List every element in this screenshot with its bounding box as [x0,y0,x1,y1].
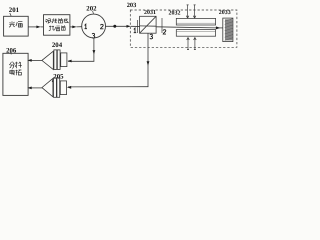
wire detector204 to analysis box [29,59,42,61]
mirror hatched back [225,19,232,40]
svg-text:2033: 2033 [219,10,231,16]
svg-text:205: 205 [53,73,64,80]
junction dot [113,25,116,28]
text line2 扰偏器 (pseudo-glyphs) [49,25,66,30]
circulator 202 [82,14,106,38]
light source box 201 [4,16,29,36]
wire source to filter [28,26,37,28]
beam line through cube to etalon [131,25,177,28]
beam line inside cube (redraw over fill) [140,25,157,27]
port tick left of cube [137,20,139,33]
wire cube port3 down to detector 205 [147,33,149,86]
plate 1 [54,50,57,70]
text 分析 (pseudo-glyphs) [9,62,22,69]
svg-text:2032: 2032 [169,11,181,17]
svg-text:203: 203 [127,2,137,9]
plate 1 [54,78,57,98]
arrowhead into detector 205 [67,86,71,89]
tuning arrow bottom-left (up) [187,38,190,50]
wire circulator port3 down [93,38,95,61]
wire filter to circulator [70,26,73,28]
arrowhead into circulator [72,26,76,29]
text 光源 (pseudo-glyphs) [9,21,22,27]
arrowhead into filter [36,26,40,29]
arrowhead into box 203 [127,25,131,28]
svg-text:202: 202 [86,5,97,12]
label 205 tick [51,79,54,82]
svg-text:201: 201 [9,7,20,14]
arrowhead into box 206 (upper) [27,59,31,62]
label 206 tick [9,52,12,54]
filter/scrambler box [44,15,70,36]
dashed box 203 [130,10,237,47]
detector 205 [42,78,67,98]
wire corner to detector 204 [68,60,94,62]
arrowhead into detector 204 [67,60,71,63]
cube port 3 label [150,34,153,39]
beam line between etalon plates [176,26,216,29]
etalon plate top [176,18,215,25]
etalon plate top inner face line [176,22,215,24]
label 201 tick [10,13,11,16]
wire circulator to interferometer box [106,25,128,27]
text 电路 (pseudo-glyphs) [10,70,22,76]
svg-text:204: 204 [52,42,63,49]
mirror 2033 [223,18,233,41]
label 202 tick [92,11,95,14]
can [61,53,67,67]
port 2 label [101,24,104,28]
can [60,81,66,95]
arrowhead toward mirror [216,26,220,29]
port 1 label [85,24,88,29]
svg-text:2031: 2031 [144,10,156,16]
etalon plate bottom inner face line [176,30,215,32]
text line1 滤波器或 (pseudo-glyphs) [45,18,68,23]
wire detector205 to analysis box [29,87,42,89]
actuation wire etalon to mirror [216,27,223,29]
tuning arrow bottom-right (up) [194,38,197,50]
wire corner to detector 205 [68,86,148,88]
tuning arrow top-left (down) [186,5,189,18]
arrowhead down on port3 wire [93,50,96,54]
arrowhead down on cube port3 wire [147,61,150,65]
analysis circuit box 206 [3,53,28,95]
cone [42,78,53,96]
etalon plate bottom [176,30,215,37]
tuning arrow top-right (down) [193,5,196,18]
port 3 label [92,33,95,38]
beam splitter cube 2031 [140,16,157,33]
arrowhead into box 206 (lower) [27,87,31,90]
cube diagonal [140,16,157,33]
detector 204 [42,50,67,70]
cube port 1 label [134,28,137,33]
cone [42,51,53,69]
cube port 2 label [163,30,166,34]
plate 2 [57,50,60,70]
port tick right of cube [161,18,163,33]
plate 2 [57,78,60,98]
